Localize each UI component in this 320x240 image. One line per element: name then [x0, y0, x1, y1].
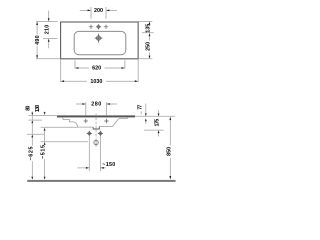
- svg-text:250: 250: [145, 42, 151, 51]
- bottom fixing left (diamond-cross): [87, 131, 92, 136]
- dim 620 (bowl width): [75, 60, 125, 69]
- svg-text:210: 210: [45, 25, 51, 35]
- svg-text:200: 200: [94, 8, 103, 14]
- dim 210 (left inner, top edge to drain): [43, 11, 58, 49]
- dim 77 (right): [141, 104, 146, 124]
- left extension lines (deck top, 80-level, basin bottom, holes, drain): [27, 116, 88, 142]
- svg-text:280: 280: [91, 102, 101, 108]
- fixing hole right (+): [104, 119, 108, 123]
- drain flange (dark): [93, 127, 99, 130]
- faucet hole center (diamond with cross): [96, 24, 101, 29]
- basin bowl (inner rounded rect): [74, 31, 126, 54]
- center line (dashed): [95, 114, 97, 139]
- bottom fixing right (diamond-cross): [98, 131, 103, 136]
- svg-text:130: 130: [35, 105, 41, 113]
- dim ~515 (floor to drain outlet): [44, 131, 46, 177]
- fixing hole left (+): [84, 119, 88, 123]
- dim 200 (top, faucet spacing): [80, 7, 117, 19]
- dim 850 (deck height): [169, 120, 171, 176]
- dim ~150 (bottom fixing spacing): [77, 136, 105, 171]
- svg-text:490: 490: [35, 35, 41, 45]
- drain outlet circle: [94, 139, 98, 147]
- dim 175 (right): [158, 110, 160, 136]
- dim 1030 (overall width): [61, 60, 138, 83]
- dim 135 / 250 (right side, rotated): [138, 22, 154, 59]
- faucet hole right (+): [104, 25, 108, 29]
- svg-text:77: 77: [137, 105, 143, 110]
- faucet hole left (+): [89, 25, 93, 29]
- right extension lines: [135, 116, 175, 130]
- drain (circle-cross target): [95, 34, 103, 43]
- dim 80 (left): [31, 111, 33, 120]
- svg-text:1030: 1030: [90, 79, 102, 85]
- basin underside profile: [57, 117, 128, 127]
- dim 130 (left): [44, 111, 46, 114]
- svg-text:~150: ~150: [102, 162, 115, 168]
- deck slab (dark band): [57, 115, 135, 117]
- basin outer rectangle (top view): [61, 22, 139, 59]
- dim ~625 (floor to bottom fixing): [31, 123, 33, 177]
- svg-text:620: 620: [92, 65, 101, 71]
- floor line: [27, 180, 175, 182]
- svg-text:~515: ~515: [41, 145, 47, 159]
- svg-text:~625: ~625: [28, 147, 34, 161]
- svg-text:175: 175: [155, 119, 161, 127]
- dim 280 (fixing hole spacing): [76, 102, 117, 115]
- svg-text:80: 80: [26, 106, 32, 111]
- svg-text:135: 135: [145, 24, 151, 33]
- dim 490 (left outer): [36, 22, 61, 59]
- svg-text:850: 850: [166, 147, 172, 156]
